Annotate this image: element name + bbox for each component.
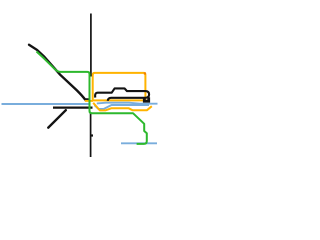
orange west stub: [85, 100, 93, 102]
orange lower line: [93, 103, 152, 111]
orange loop line: [92, 73, 145, 101]
black west horizontal: [53, 106, 93, 108]
black vertical line north: [90, 14, 92, 77]
black station tick: [91, 134, 93, 136]
black SW diagonal: [48, 110, 66, 127]
green line diagonal + main: [37, 52, 147, 144]
blue line main horizontal: [2, 103, 90, 105]
blue line lower dip: [95, 105, 150, 109]
black NW diagonal: [29, 45, 88, 100]
black vertical line south: [90, 113, 92, 158]
orange corner dot: [144, 72, 146, 74]
black loop line: [95, 88, 149, 100]
black terminal loop: [144, 97, 148, 101]
blue line bottom segment: [121, 142, 157, 144]
